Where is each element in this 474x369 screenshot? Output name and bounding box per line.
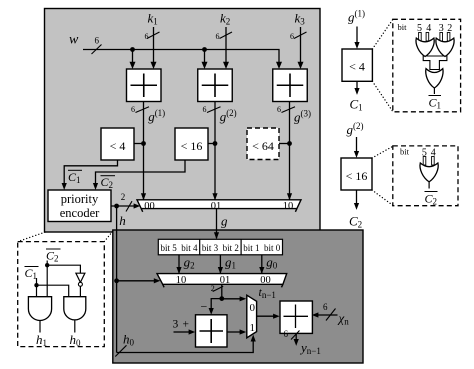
svg-text:6: 6 <box>277 105 281 114</box>
bus width 6 slash on k1 <box>145 32 160 41</box>
dotted magnifier lines for h decoder <box>18 232 113 242</box>
wire C1 output <box>354 81 359 95</box>
comparator unit box (<16) right <box>341 158 372 190</box>
svg-text:1: 1 <box>250 322 256 334</box>
svg-text:< 4: < 4 <box>110 139 126 153</box>
wire C2bar to inverter <box>47 265 80 273</box>
detail dashed box for C2 logic <box>393 146 458 206</box>
OR gate B (bits 3,2) <box>436 38 454 56</box>
dotted magnifier lines for <4 <box>372 20 392 112</box>
wire k3 <box>298 27 304 69</box>
bus width 2 slash on h <box>121 192 132 212</box>
wire comparator1 tap <box>134 143 144 145</box>
wire constant 3 into adder4 <box>174 329 196 334</box>
junction dot w to adder2 <box>202 47 207 52</box>
wire g1 <box>218 255 223 274</box>
priority encoder box <box>48 190 111 222</box>
wire t to mux3 input 0 <box>222 296 246 301</box>
wire w bus <box>83 50 282 70</box>
wire g(2) <box>212 102 217 201</box>
svg-text:< 4: < 4 <box>349 60 365 74</box>
wire h0 out <box>74 321 76 333</box>
wire g2 <box>176 255 181 274</box>
node C1bar label hbox <box>25 266 39 281</box>
wire comparator3 tap <box>279 143 290 145</box>
junction dot g(2) tap <box>213 141 218 146</box>
junction dot g(1) tap <box>141 141 146 146</box>
bus width 6 slash on k2 <box>216 32 233 41</box>
node tn-1 label <box>259 285 276 300</box>
svg-text:< 16: < 16 <box>346 169 368 183</box>
wire g(1) into <4 unit <box>354 27 359 49</box>
bit caption box2 <box>400 147 410 157</box>
node g2 label <box>184 255 195 271</box>
junction dot h <box>114 204 119 209</box>
wire w to adder2 <box>202 50 208 70</box>
pin 5 box2 <box>422 148 427 166</box>
pin 4 box2 <box>431 148 436 166</box>
node C2 label <box>349 214 362 230</box>
svg-text:10: 10 <box>283 201 294 212</box>
node g(1) label <box>148 108 165 124</box>
comparator box (<64) dashed <box>247 128 279 160</box>
node g label <box>221 214 228 229</box>
svg-text:3: 3 <box>173 319 179 331</box>
svg-text:bit 3 bit 2: bit 3 bit 2 <box>202 243 239 253</box>
svg-text:6: 6 <box>216 32 220 41</box>
pin 3 <box>439 23 444 41</box>
svg-text:6: 6 <box>284 329 289 339</box>
wire C1bar vertical hbox <box>36 278 38 297</box>
bus width 2 slash on t <box>211 284 223 293</box>
detail dashed box for C1 logic <box>393 19 461 112</box>
bit split register row <box>158 239 282 255</box>
wire t to subtract adder <box>209 299 222 315</box>
svg-text:< 16: < 16 <box>181 139 203 153</box>
svg-text:2: 2 <box>121 192 126 202</box>
wire C2 output <box>354 190 359 210</box>
svg-text:00: 00 <box>144 201 155 212</box>
node h0 label hbox <box>70 332 82 348</box>
wire g0 <box>259 255 264 274</box>
lower unit dark grey box <box>113 230 363 363</box>
svg-text:−: − <box>201 300 208 314</box>
bus width 6 slash on k3 <box>290 32 307 41</box>
node k1 label <box>148 11 158 27</box>
svg-text:2: 2 <box>211 284 215 293</box>
node g(2) label <box>220 108 237 124</box>
bus merge T pipe <box>423 56 447 70</box>
wire adder4 to mux3 input 1 <box>227 329 246 334</box>
node y_n-1 label <box>299 340 321 356</box>
junction dot w to adder1 <box>130 47 135 52</box>
wire h1 out <box>39 321 41 333</box>
node C2bar label hbox <box>46 249 61 264</box>
junction dot C1bar hbox <box>34 283 38 287</box>
svg-text:6: 6 <box>131 105 135 114</box>
comparator unit box (<4) right <box>342 49 372 81</box>
svg-text:6: 6 <box>145 32 149 41</box>
junction dot h select <box>114 278 119 283</box>
bus width 6 slash on chi <box>323 302 336 321</box>
constant 3 plus label <box>173 319 190 331</box>
inverter NOT gate <box>76 273 85 297</box>
pin 2 <box>447 23 452 41</box>
svg-text:6: 6 <box>95 35 100 45</box>
node k3 label <box>295 11 306 27</box>
wire h from encoder to mux1 <box>111 203 140 208</box>
adder U2 (w+k2) <box>198 69 233 102</box>
detail dashed box for h logic <box>18 242 105 347</box>
wire comparator2 tap <box>208 143 215 145</box>
node C1bar label detail <box>429 96 442 111</box>
svg-text:h: h <box>119 213 126 228</box>
node k2 label <box>220 11 230 27</box>
bus slash on h0 <box>115 345 126 356</box>
bus width 6 slash on y <box>284 329 300 340</box>
svg-text:bit 5 bit 4: bit 5 bit 4 <box>160 243 198 253</box>
wire w to adder1 <box>130 50 136 70</box>
adder U3 (w+k3) <box>273 69 308 102</box>
wire C1bar to priority encoder <box>62 160 118 190</box>
wire tn-1 mux3 to adder5 <box>257 314 280 319</box>
node C1bar label <box>68 170 82 185</box>
svg-text:6: 6 <box>323 302 328 312</box>
wire C2bar to priority encoder <box>93 160 185 190</box>
dotted magnifier lines for <16 <box>372 146 393 205</box>
wire k1 <box>151 27 157 69</box>
wire h select down <box>116 206 118 353</box>
OR gate C (final) <box>426 69 443 88</box>
pin 4 <box>426 23 431 41</box>
node chi_n label <box>337 311 350 327</box>
bus width 6 slash on g(1) <box>131 105 149 114</box>
node w label <box>69 33 79 48</box>
wire g(1) <box>141 102 146 201</box>
junction dot t <box>219 296 224 301</box>
AND gate h0 <box>64 297 86 320</box>
wire k2 <box>223 27 229 69</box>
wire C1bar to AND R <box>37 285 69 297</box>
OR gate A (bits 5,4) <box>416 38 434 56</box>
svg-text:0: 0 <box>250 302 256 314</box>
comparator C1 box (<4) <box>101 128 134 160</box>
svg-text:bit 1 bit 0: bit 1 bit 0 <box>243 243 281 253</box>
node h1 label <box>36 332 47 348</box>
node C1 label <box>350 97 363 113</box>
junction dot C2bar hbox <box>45 263 49 267</box>
svg-text:bit: bit <box>400 147 410 157</box>
svg-text:g: g <box>221 214 228 229</box>
node g(2) label right unit <box>347 121 364 137</box>
svg-text:w: w <box>69 33 79 48</box>
mux M1 trapezoid <box>137 200 301 212</box>
bit caption box1 <box>398 22 408 32</box>
wire h0 feedback <box>117 335 256 353</box>
wire t select output of mux2 <box>221 284 223 298</box>
comparator C2 box (<16) <box>175 128 208 160</box>
node C2bar label <box>101 175 116 190</box>
junction dot g(3) tap <box>287 141 292 146</box>
wire C1bar out <box>433 88 435 94</box>
node g0 label <box>266 255 278 271</box>
node h0 label <box>123 332 135 348</box>
svg-text:encoder: encoder <box>60 206 100 220</box>
node C2bar label detail <box>425 192 438 207</box>
svg-text:10: 10 <box>176 275 187 286</box>
wire chi_n input <box>312 312 338 317</box>
adder U5 (output) <box>280 301 312 333</box>
bus width 6 slash on g(2) <box>203 105 221 114</box>
bus width 6 slash on w <box>92 35 102 54</box>
adder U4 (t-3) <box>196 315 228 347</box>
wire g output of mux1 <box>214 209 219 240</box>
adder U1 (w+k1) <box>127 69 162 102</box>
svg-text:bit: bit <box>398 22 408 32</box>
mux M3 trapezoid <box>247 295 257 338</box>
wire C2bar vertical hbox <box>46 261 48 297</box>
mux M2 trapezoid <box>157 274 287 288</box>
main unit light grey box <box>45 9 321 233</box>
OR gate D (bits 5,4) <box>420 163 438 182</box>
wire y_n-1 output <box>294 333 299 346</box>
svg-text:< 64: < 64 <box>252 139 274 153</box>
node h label <box>119 213 126 228</box>
pin 5 <box>417 23 422 41</box>
wire g(2) into <16 unit <box>354 137 359 158</box>
wire g(3) <box>287 102 292 201</box>
minus sign <box>201 300 208 314</box>
node g(1) label right unit <box>348 9 365 25</box>
svg-text:6: 6 <box>203 105 207 114</box>
wire h select into mux2 <box>117 278 161 283</box>
svg-text:+: + <box>183 319 190 331</box>
svg-text:priority: priority <box>61 192 99 206</box>
node g1 label <box>225 255 236 271</box>
bus width 6 slash on g(3) <box>277 105 295 114</box>
wire C2bar out <box>428 182 430 189</box>
svg-text:6: 6 <box>290 32 294 41</box>
AND gate h1 <box>28 297 51 321</box>
node g(3) label <box>294 109 311 125</box>
